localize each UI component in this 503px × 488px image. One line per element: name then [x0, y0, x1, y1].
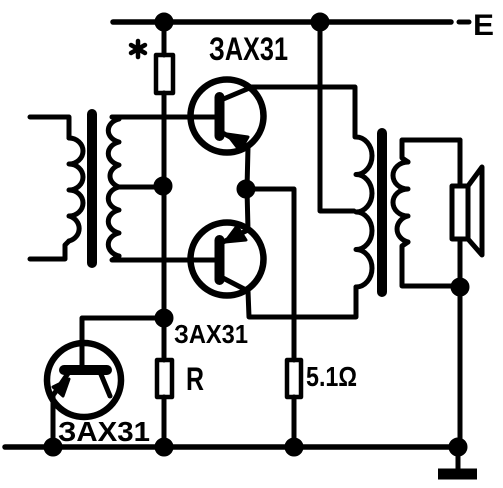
transistor Q1 emitter stroke: [221, 132, 248, 147]
transformer T2 secondary bottom lead: [402, 242, 460, 286]
transistor Q1 base bar: [215, 97, 225, 136]
transistor Q3 base bar: [64, 365, 107, 375]
wire Q2 collector to T2 primary bottom: [248, 287, 356, 317]
transistor Q2 emitter stroke: [221, 230, 248, 243]
transformer T1 secondary winding: [108, 119, 119, 256]
label -E dash: [459, 20, 469, 25]
transformer T2 secondary winding: [393, 162, 408, 242]
transformer T1 center tap wire: [117, 185, 163, 190]
svg-text:E: E: [473, 9, 494, 42]
junction dot bottom 5.1ohm: [287, 440, 301, 454]
wire Q1 emitter down to junction: [247, 147, 248, 189]
resistor * (bias): [156, 55, 173, 93]
ground bar: [438, 469, 477, 480]
transformer T1 secondary bottom lead / wire to Q2 base: [112, 256, 215, 260]
speaker cone: [468, 167, 482, 255]
transistor Q1 circle: [191, 80, 264, 153]
wire Q1 collector to T2 primary top: [252, 87, 355, 137]
ground stub: [456, 447, 461, 469]
junction dot top rail left: [157, 15, 171, 29]
speaker body: [452, 186, 468, 239]
transistor Q3 circle: [47, 343, 121, 417]
transistor Q2 circle: [191, 223, 264, 296]
junction dot bias: [157, 311, 171, 325]
svg-text:5.1Ω: 5.1Ω: [306, 361, 357, 392]
transistor Q3 collector stroke: [100, 372, 110, 396]
transistor Q3 emitter arrow: [53, 379, 69, 396]
transistor Q1 emitter arrow: [227, 134, 248, 151]
svg-text:R: R: [186, 361, 204, 397]
label *: [131, 41, 145, 57]
transistor Q1 collector stroke: [221, 87, 252, 100]
wire supply to T2 center tap: [320, 22, 354, 211]
junction dot center tap: [156, 179, 170, 193]
wire Q2 emitter up to junction: [247, 189, 248, 230]
transistor Q2 emitter arrow: [225, 226, 246, 242]
transformer T2 core: [377, 133, 387, 292]
transistor Q2 collector stroke: [221, 277, 248, 291]
top supply rail: [113, 19, 451, 25]
resistor R: [157, 360, 172, 397]
junction dot bottom Q3: [46, 440, 60, 454]
bottom rail: [5, 444, 459, 450]
wire bias junction to Q3 base: [82, 318, 164, 366]
transformer T1 core: [87, 114, 97, 263]
svg-text:ЗАХ31: ЗАХ31: [209, 31, 288, 67]
resistor 5.1 ohm: [287, 360, 301, 397]
transformer T1 primary winding: [69, 138, 83, 241]
junction dot bottom bus A: [157, 440, 171, 454]
junction dot emitters: [239, 182, 253, 196]
junction dot bottom right: [451, 440, 465, 454]
transformer T1 primary top lead: [30, 117, 69, 138]
junction dot speaker bottom: [453, 280, 467, 294]
svg-text:ЗАХ31: ЗАХ31: [174, 319, 248, 349]
wire emitter junction to 5.1ohm resistor: [246, 189, 294, 447]
wire Q3 emitter to bottom rail: [51, 394, 56, 447]
transformer T1 secondary top lead / wire to Q1 base: [112, 117, 215, 119]
wire speaker right vertical: [458, 140, 463, 447]
transformer T2 secondary top lead: [402, 140, 460, 162]
transformer T2 primary winding: [356, 137, 372, 287]
transformer T1 primary bottom lead: [30, 241, 69, 259]
svg-text:ЗАХ31: ЗАХ31: [58, 416, 150, 447]
transistor Q3 emitter stroke: [54, 372, 69, 394]
transistor Q2 base bar: [215, 240, 225, 280]
wire: bus A vertical (supply divider chain): [162, 22, 167, 447]
junction dot top rail right: [313, 15, 327, 29]
